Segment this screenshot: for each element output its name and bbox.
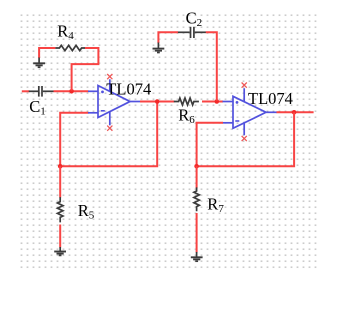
wire: feedback from below into U1 inverting input xyxy=(60,113,88,166)
power pin x bottom U2 xyxy=(242,136,247,141)
power pin x top U2 xyxy=(242,83,247,88)
wire: C1 to op-amp U1 noninverting input xyxy=(54,90,89,92)
wire: R4 left to ground xyxy=(39,48,55,58)
node junction R6/C2 net xyxy=(215,99,220,104)
capacitor C2 xyxy=(178,27,206,38)
wire: C1 input wire left segment xyxy=(22,90,30,92)
op-amp U1 TL074 xyxy=(88,79,141,125)
wire: U1 output to R6 xyxy=(140,101,175,103)
resistor R4 xyxy=(55,45,87,50)
wire: U1 output down-left feedback loop xyxy=(59,102,157,166)
node junction R5 top xyxy=(58,164,63,169)
wire: C2 left segment to ground xyxy=(158,32,178,43)
wire: R4 right over to C1 net junction xyxy=(72,48,99,91)
ground G3 (R5) xyxy=(54,247,66,255)
wire: U2 feedback loop right/bottom xyxy=(196,112,295,166)
node junction U2 output xyxy=(292,110,297,115)
wire: R7 upper lead xyxy=(196,166,198,188)
op-amp U2 TL074 xyxy=(223,88,278,135)
wire: C2 right down to R6 net xyxy=(206,32,217,100)
ground G1 (R4) xyxy=(33,58,45,68)
ground G4 (R7) xyxy=(191,252,203,261)
power pin x bottom U1 xyxy=(107,126,112,131)
wire: R7 lower lead to ground xyxy=(196,213,198,253)
svg-text:TL074: TL074 xyxy=(106,79,151,98)
svg-text:TL074: TL074 xyxy=(248,89,293,108)
node junction C1/R4 net xyxy=(69,89,74,94)
resistor R5 xyxy=(57,197,63,222)
resistor R6 xyxy=(174,98,199,105)
wire: feedback up to U2 inverting input xyxy=(197,123,223,166)
node junction R7 top xyxy=(194,164,199,169)
capacitor C1 xyxy=(29,86,54,97)
wire: R5 lower lead to ground xyxy=(59,225,61,248)
wire: R5 upper lead xyxy=(59,166,61,197)
wire: U2 output to right open end xyxy=(277,111,314,113)
node junction U1 output xyxy=(155,99,160,104)
resistor R7 xyxy=(194,187,199,211)
ground G2 (C2) xyxy=(153,43,165,53)
wire: R6 to op-amp U2 noninverting input xyxy=(202,101,223,103)
power pin x top U1 xyxy=(107,74,112,79)
